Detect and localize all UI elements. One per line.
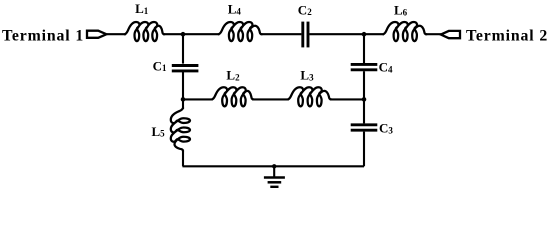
terminal 1 connector xyxy=(87,31,106,38)
ground xyxy=(264,166,285,187)
inductor L6 xyxy=(383,22,426,41)
capacitor C4 xyxy=(351,64,378,69)
wire xyxy=(182,72,184,100)
wire xyxy=(163,33,183,35)
wire xyxy=(183,98,213,100)
wire xyxy=(330,98,364,100)
wire xyxy=(182,99,184,109)
node A xyxy=(181,32,186,37)
wire xyxy=(309,33,364,35)
wire xyxy=(425,33,441,35)
wire xyxy=(182,34,184,63)
svg-text:Terminal 1: Terminal 1 xyxy=(2,28,84,45)
wire xyxy=(363,132,365,167)
wire xyxy=(182,150,184,167)
node C xyxy=(181,97,186,102)
wire xyxy=(364,33,384,35)
capacitor C1 xyxy=(172,66,199,71)
wire xyxy=(261,33,302,35)
terminal 2 connector xyxy=(441,31,460,38)
wire xyxy=(363,34,365,63)
wire xyxy=(252,98,289,100)
ground node xyxy=(272,164,276,168)
inductor L3 xyxy=(288,87,331,106)
node D xyxy=(362,97,367,102)
node B xyxy=(362,32,367,37)
wire xyxy=(107,33,126,35)
inductor L2 xyxy=(212,87,253,106)
wire xyxy=(363,71,365,99)
wire xyxy=(183,165,365,167)
inductor L5 xyxy=(171,108,190,151)
wire xyxy=(363,99,365,123)
wire xyxy=(183,33,220,35)
capacitor C3 xyxy=(351,125,378,130)
inductor L1 xyxy=(125,22,165,41)
svg-text:Terminal 2: Terminal 2 xyxy=(466,28,548,45)
inductor L4 xyxy=(219,22,262,41)
capacitor C2 xyxy=(303,22,308,48)
